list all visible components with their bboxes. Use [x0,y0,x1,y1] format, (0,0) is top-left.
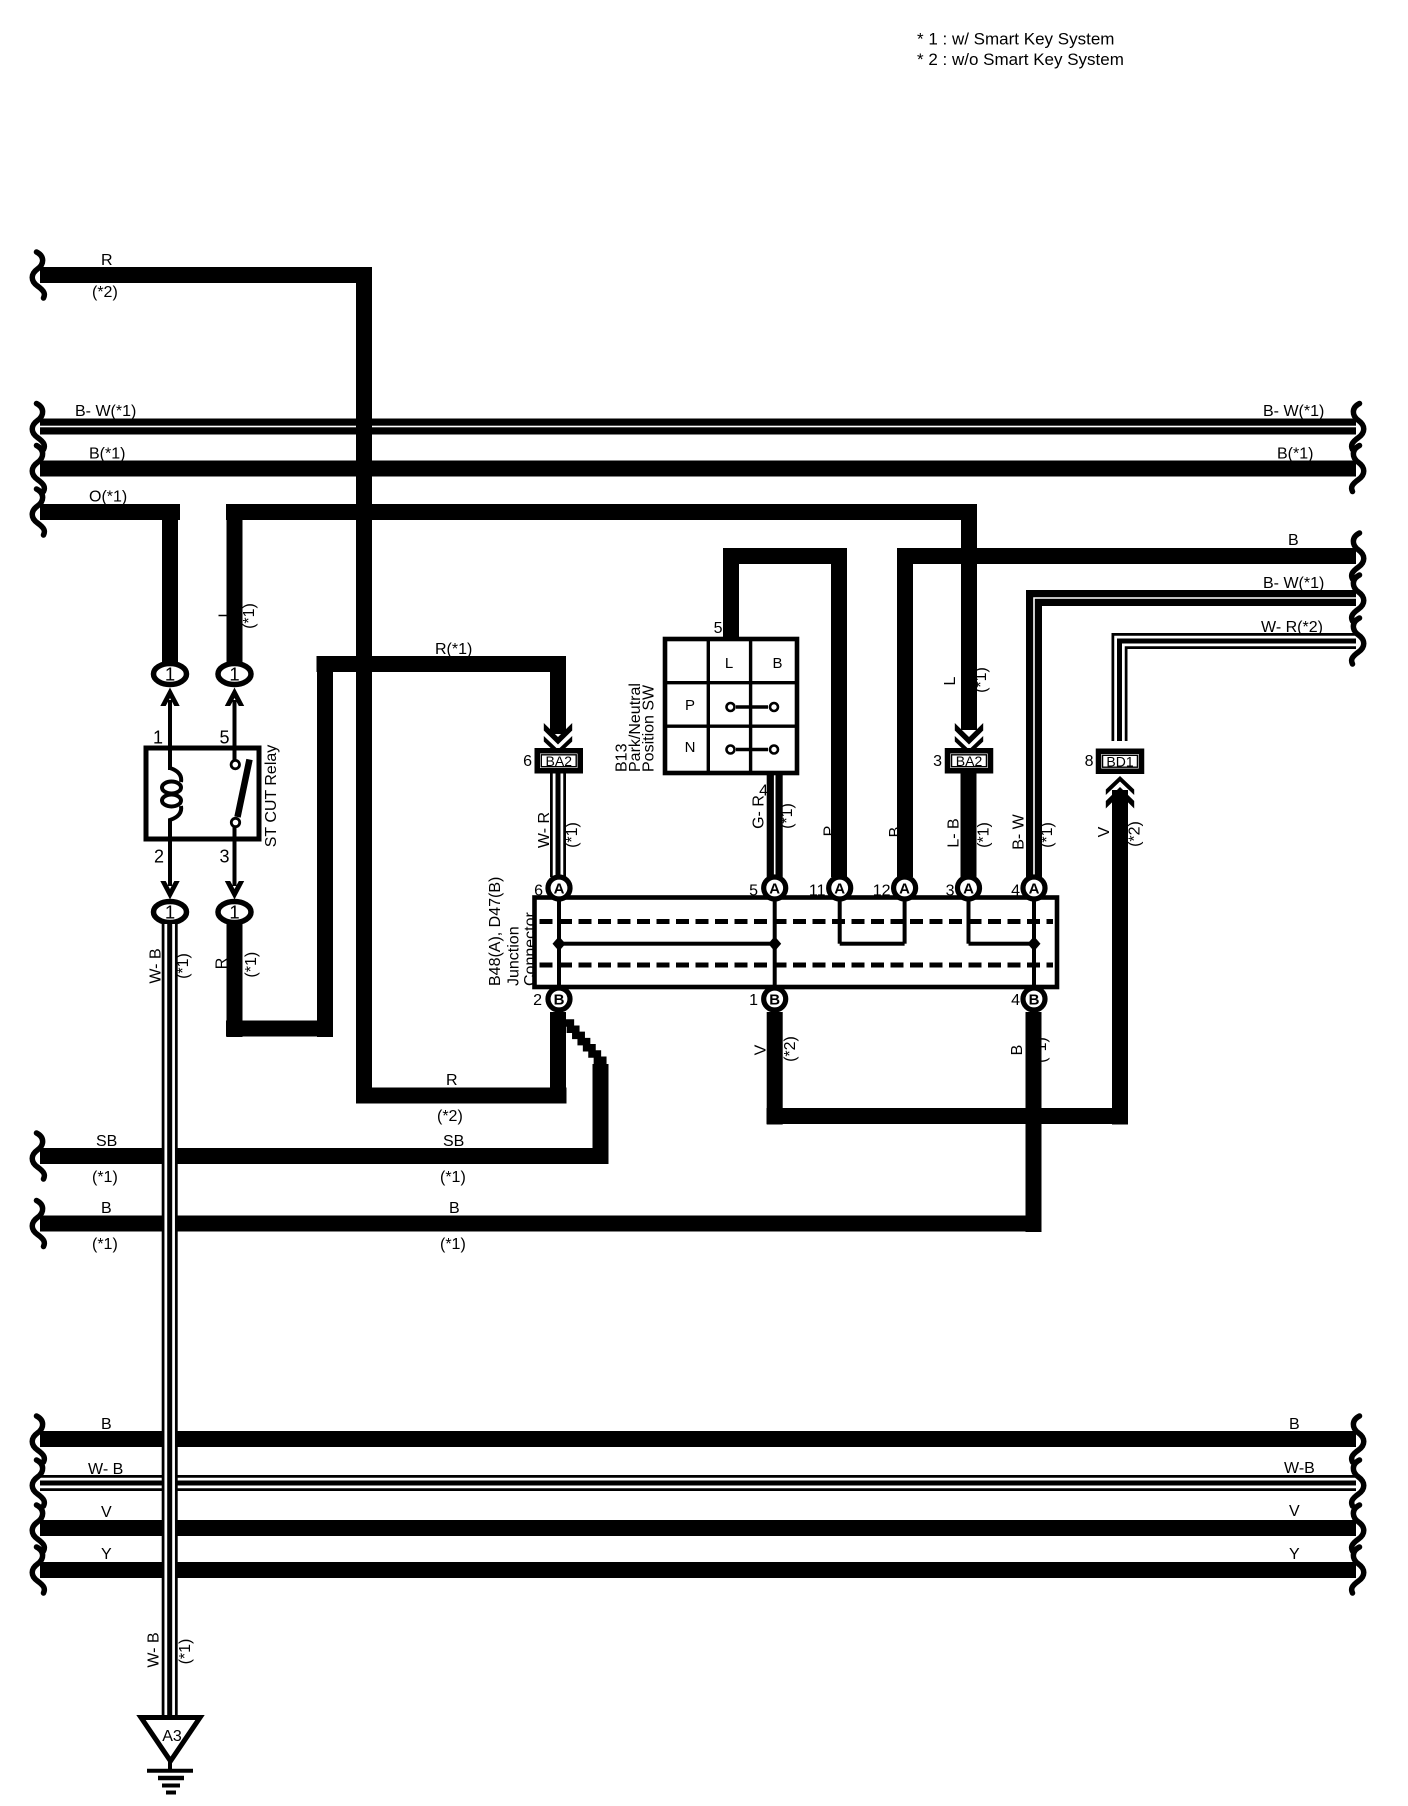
harness break right y1439 [1352,1416,1364,1462]
wire V(*2) riser to connector BD1 pin 8 [1112,790,1128,1125]
label B(*1) right [1277,446,1313,463]
Park/Neutral Position SW B13 body [665,639,797,773]
label W-B bottom right [1284,1460,1315,1477]
Park/Neutral SW contact pair row P [727,703,779,711]
harness break right y1483 [1352,1460,1364,1506]
svg-text:A: A [834,881,845,898]
svg-text:V: V [101,1504,112,1521]
rotated label (*1) at x1046 [1033,1037,1050,1063]
rotated label W- B at x158.5 [146,1632,163,1667]
wire B vertical drop to junction pin 12A [897,548,913,877]
harness break right y426.5 [1352,404,1364,450]
svg-text:B: B [101,1200,112,1217]
label R left [101,252,113,269]
terminal oval 1 above relay pin 1 [154,664,187,685]
svg-text:B(*1): B(*1) [1277,446,1313,463]
svg-text:(*2): (*2) [437,1108,463,1125]
svg-text:L: L [217,608,234,617]
terminal oval 1 above relay pin 5 [218,664,251,685]
svg-text:(*2): (*2) [782,1036,799,1062]
svg-text:(*1): (*1) [1033,1037,1050,1063]
wire L(*1) drop to connector BA2 pin 3 [961,504,977,730]
rotated label (*1) at x577 [564,822,581,848]
svg-text:B48(A), D47(B): B48(A), D47(B) [487,877,504,986]
junction internal link pin 5A to 1B [773,899,777,986]
wire R(*2) from top-left break, horizontal run [40,267,372,283]
svg-text:(*1): (*1) [1039,822,1056,848]
junction internal link pin 6A to 2B [557,899,561,986]
svg-text:(*1): (*1) [175,953,192,979]
connector arrow into BA2 pin 6 [544,723,572,755]
label B mid [449,1200,460,1217]
harness break right y598 [1352,575,1364,621]
SW name B13 Park/Neutral Position SW [614,683,658,772]
label SB left [96,1133,117,1150]
svg-text:L: L [725,655,733,672]
svg-text:BD1: BD1 [1106,753,1133,769]
svg-text:A: A [769,881,780,898]
svg-text:3: 3 [933,753,942,770]
rotated label (*1) at x986 [973,667,990,693]
relay switch blade [238,760,250,818]
svg-text:W- R(*2): W- R(*2) [1261,619,1323,636]
svg-text:1: 1 [229,902,239,923]
Park/Neutral SW grid lines [665,639,797,773]
wire O(*1) horizontal from left break [40,504,180,520]
svg-text:B- W(*1): B- W(*1) [1263,575,1324,592]
harness break left y512 [32,489,44,535]
svg-text:B- W(*1): B- W(*1) [1263,403,1324,420]
label V bottom right [1289,1503,1300,1520]
svg-text:12: 12 [873,883,891,900]
svg-text:P: P [685,697,695,714]
wire B horizontal from right break [897,548,1356,564]
label B- W(*1) left [75,403,136,420]
junction internal bus 11A-12A [840,942,905,946]
label O(*1) left [89,489,127,506]
svg-text:(*1): (*1) [241,603,258,629]
rotated label B at x1022 [1009,1045,1026,1056]
wire SB(*1) stepped option link from junction pin 2B [565,1023,605,1066]
svg-text:B- W: B- W [1011,813,1028,849]
svg-text:V: V [1096,826,1113,837]
label B bottom right [1289,1416,1300,1433]
terminal arrow into pin 5 [225,688,244,707]
relay pin 5 number [219,728,229,748]
svg-text:3: 3 [946,883,955,900]
svg-text:2: 2 [154,847,164,867]
label V bottom left [101,1504,112,1521]
svg-text:SB: SB [443,1133,464,1150]
svg-text:1: 1 [153,728,163,748]
harness break right y1528 [1352,1505,1364,1551]
relay pin 1 lead [168,700,172,770]
rotated label (*1) at x255.8 [243,952,260,978]
svg-text:R: R [101,252,113,269]
junction pin circle A at x1034 [1023,877,1045,899]
junction pin numbers A row [534,883,1020,900]
junction node dot at 4A/4B column [1028,936,1041,951]
svg-text:(*1): (*1) [440,1236,466,1253]
relay pin 2 lead [168,837,172,886]
wire SB(*1) horizontal from left break [40,1148,609,1164]
svg-text:1: 1 [229,664,239,685]
svg-text:B: B [554,992,565,1009]
svg-text:SB: SB [96,1133,117,1150]
svg-text:B- W(*1): B- W(*1) [75,403,136,420]
wire L(*1) horizontal run [226,504,977,520]
BD1 pin 8 number [1085,753,1094,770]
svg-text:5: 5 [714,620,723,637]
svg-text:W- R: W- R [536,812,553,848]
svg-text:B: B [1289,1416,1300,1433]
harness break left y1483 [32,1460,44,1506]
label B bottom left [101,1416,112,1433]
harness break left y1528 [32,1505,44,1551]
junction internal link pin 3A down [967,899,971,944]
relay ST CUT Relay body [146,748,259,839]
svg-text:8: 8 [1085,753,1094,770]
svg-text:Y: Y [101,1546,112,1563]
wire B(*1) from junction pin 4B down [1026,1012,1042,1232]
junction pin circle B at x774.7 [764,988,786,1010]
svg-text:W- B: W- B [88,1461,123,1478]
wire V(*2) horizontal run [767,1108,1129,1124]
legend note *1/*2 [917,30,1124,70]
svg-text:3: 3 [219,847,229,867]
svg-text:ST CUT Relay: ST CUT Relay [263,745,280,848]
connector arrow into BD1 pin 8 [1106,776,1134,809]
junction pin circle A at x774.7 [764,877,786,899]
junction node dot at 2B column [553,936,566,951]
junction pin circle A at x904.6 [894,877,916,899]
svg-text:11: 11 [809,883,826,900]
rotated label (*1) at x254 [241,603,258,629]
svg-text:1: 1 [165,902,175,923]
harness break left y1570 [32,1547,44,1593]
junction internal bus 3A-4A [969,942,1035,946]
svg-text:R: R [446,1072,458,1089]
label (*2) mid [437,1108,463,1125]
rotated label W- B at x160.5 [148,948,165,983]
label (*1) under B left [92,1236,118,1253]
svg-text:4: 4 [1011,992,1020,1009]
rotated label (*1) at x988.5 [976,822,993,848]
junction name B48(A),D47(B) Junction Connector [487,877,539,986]
wire L(*1) drop to ST CUT relay pin 5 terminal [227,504,243,665]
connector arrow into BA2 pin 3 [955,723,983,755]
wire W-B horizontal bottom [40,1475,1356,1491]
junction pin circle A at x559 [548,877,570,899]
svg-text:B: B [769,992,780,1009]
rotated label W- R at x549 [536,812,553,848]
wire R(*1) from relay pin 3 terminal down [227,924,243,1037]
junction internal link pin 12A down [903,899,907,944]
BA2 pin 3 number [933,753,942,770]
rotated label (*2) at x1139.5 [1127,821,1144,847]
junction pin circle B at x1034 [1023,988,1045,1010]
terminal oval 1 below relay pin 2 [154,902,187,923]
wire P riser from Park/Neutral SW pin 5 [723,548,739,644]
wire R(*1) bottom jog [226,1021,333,1037]
label Y bottom left [101,1546,112,1563]
rotated label L at x229.5 [217,608,234,617]
wire G-R from Park/Neutral SW pin 4 to junction pin 5A [767,768,783,877]
svg-text:P: P [822,826,839,837]
rotated label R at x226.5 [214,958,231,970]
svg-text:B: B [772,655,782,672]
rotated label B at x900 [887,827,904,838]
svg-text:B: B [1288,532,1299,549]
svg-text:* 1 : w/ Smart Key System: * 1 : w/ Smart Key System [917,30,1114,49]
relay switch contact pin 3 [231,818,239,826]
label Y bottom right [1289,1546,1300,1563]
rotated label G- R at x763.5 [751,795,768,829]
relay pin 3 number [219,847,229,867]
svg-text:A: A [899,881,910,898]
svg-text:B: B [101,1416,112,1433]
relay pin 5 lead [233,700,237,761]
relay pin 2 number [154,847,164,867]
wire W-R(*2) from right break to BD1 pin 8 [1120,641,1357,741]
wire L-B(*1) from BA2 pin 3 to junction pin 3A [961,770,977,877]
junction connector B48(A),D47(B) body [535,898,1058,988]
wire R(*2) bottom horizontal run to junction pin 2B [356,1088,567,1104]
harness break left y426.5 [32,404,44,450]
svg-text:A: A [1029,881,1040,898]
svg-text:B(*1): B(*1) [89,446,125,463]
relay name ST CUT Relay [263,745,280,848]
label (*1) under SB left [92,1169,118,1186]
BA2 pin 6 number [523,753,532,770]
svg-text:V: V [1289,1503,1300,1520]
rotated label P at x834.5 [822,826,839,837]
svg-text:1: 1 [165,664,175,685]
label SB mid [443,1133,464,1150]
svg-text:A3: A3 [162,1728,182,1745]
wire V bottom horizontal [40,1520,1356,1536]
wire R(*1) drop into connector BA2 pin 6 [550,656,566,734]
svg-text:(*1): (*1) [177,1639,194,1665]
label R mid [446,1072,458,1089]
rotated label L at x955 [942,676,959,685]
harness break right y556 [1352,533,1364,579]
junction internal link pin 11A down [838,899,842,944]
harness break left y275 [32,252,44,298]
harness break left y1223.5 [32,1201,44,1247]
svg-text:(*1): (*1) [92,1169,118,1186]
rotated label (*1) at x792 [779,803,796,829]
svg-text:B: B [887,827,904,838]
label (*1) mid under B [440,1236,466,1253]
wire B(*1) top horizontal [40,461,1356,477]
svg-text:(*1): (*1) [976,822,993,848]
svg-text:R: R [214,958,231,970]
relay switch contact pin 5 [231,760,239,768]
Park/Neutral SW cell letters [685,655,783,756]
svg-text:G- R: G- R [751,795,768,829]
svg-text:(*2): (*2) [1127,821,1144,847]
rotated label (*2) at x795 [782,1036,799,1062]
junction pin circle A at x968.5 [958,877,980,899]
ground A3 triangle [141,1718,200,1762]
svg-text:O(*1): O(*1) [89,489,127,506]
wire R(*2) vertical drop at x364 [356,267,372,1104]
label B right [1288,532,1299,549]
connector BA2 pin 6 box [535,748,584,774]
svg-text:6: 6 [534,883,543,900]
junction internal bus 6A/2B to 5A/1B [559,942,775,946]
wire B bottom horizontal [40,1431,1356,1447]
wire B-W(*1) top horizontal [40,419,1356,435]
wire R(*1) riser [317,656,333,1037]
svg-text:W- B: W- B [146,1632,163,1667]
svg-text:(*1): (*1) [564,822,581,848]
svg-text:5: 5 [219,728,229,748]
rotated label L- B at x958.5 [946,818,963,847]
junction pin circle A at x839.7 [829,877,851,899]
wire P horizontal jog [723,548,847,564]
label (*1) mid under SB [440,1169,466,1186]
ground A3 stem and hatching [147,1758,193,1793]
harness break left y1439 [32,1416,44,1462]
wire O(*1) vertical drop to ST CUT relay pin 1 terminal [162,504,178,665]
rotated label V at x765.5 [753,1044,770,1055]
svg-text:1: 1 [749,992,758,1009]
connector BD1 pin 8 box [1096,749,1145,775]
junction pin numbers B row [533,992,1020,1009]
wire V(*2) from junction pin 1B down [767,1012,783,1125]
harness break left y468.5 [32,446,44,492]
svg-text:L: L [942,676,959,685]
svg-text:* 2 : w/o Smart Key System: * 2 : w/o Smart Key System [917,50,1124,69]
harness break right y641 [1352,618,1364,664]
terminal arrow into pin 2 oval [160,881,179,900]
wire Y bottom horizontal [40,1562,1356,1578]
terminal arrow into pin 1 [160,688,179,707]
label B left [101,1200,112,1217]
wire R(*1) horizontal run [317,656,567,672]
svg-text:(*1): (*1) [973,667,990,693]
svg-text:B: B [1029,992,1040,1009]
svg-text:(*1): (*1) [243,952,260,978]
svg-text:2: 2 [533,992,542,1009]
wire R(*2) vertical overlay at B-W crossing [356,418,372,436]
relay pin 3 lead [233,827,237,886]
svg-text:A: A [554,881,565,898]
harness break right y468.5 [1352,446,1364,492]
svg-text:4: 4 [1011,883,1020,900]
wire R(*2) riser into junction pin 2B [550,1012,566,1104]
svg-text:L- B: L- B [946,818,963,847]
svg-text:B: B [449,1200,460,1217]
svg-text:V: V [753,1044,770,1055]
wire B-W(*1) from right break to junction pin 4A [1034,598,1356,877]
wire W-B(*1) from relay pin 2 to ground A3 [162,924,178,1720]
svg-text:N: N [685,739,696,756]
svg-text:Y: Y [1289,1546,1300,1563]
label W- R(*2) right [1261,619,1323,636]
rotated label (*1) at x1052 [1039,822,1056,848]
svg-text:R(*1): R(*1) [435,641,472,658]
svg-text:5: 5 [749,883,758,900]
svg-text:(*2): (*2) [92,284,118,301]
label B(*1) left [89,446,125,463]
svg-text:BA2: BA2 [546,753,573,769]
rotated label V at x1109 [1096,826,1113,837]
svg-text:W-B: W-B [1284,1460,1315,1477]
SW pin 4 number [759,783,768,800]
svg-text:6: 6 [523,753,532,770]
terminal arrow into pin 3 oval [225,881,244,900]
svg-text:Junction: Junction [506,926,523,986]
relay coil between pins 1 and 2 [162,750,181,837]
svg-text:Position SW: Position SW [641,684,658,772]
svg-text:(*1): (*1) [440,1169,466,1186]
svg-text:B: B [1009,1045,1026,1056]
junction node dot at 1B column [768,936,781,951]
svg-text:A: A [963,881,974,898]
svg-text:BA2: BA2 [956,753,983,769]
harness break left y1156 [32,1133,44,1179]
rotated label (*1) at x190 [177,1639,194,1665]
relay pin 1 number [153,728,163,748]
junction connector internal dashed bus lines [540,922,1054,966]
Park/Neutral SW contact pair row N [727,746,779,754]
wire SB(*1) riser to stepped link [593,1064,609,1160]
rotated label (*1) at x188 [175,953,192,979]
harness break right y1570 [1352,1547,1364,1593]
svg-text:(*1): (*1) [92,1236,118,1253]
label R(*1) mid [435,641,472,658]
wire W-R(*1) from BA2 pin 6 to junction pin 6A [550,774,566,878]
label W- B bottom left [88,1461,123,1478]
label (*2) left [92,284,118,301]
SW pin 5 number [714,620,723,637]
wire B(*1) horizontal run to left break [40,1216,1042,1232]
label B- W(*1) right mid [1263,575,1324,592]
svg-text:W- B: W- B [148,948,165,983]
label B- W(*1) right top [1263,403,1324,420]
terminal oval 1 below relay pin 3 [218,902,251,923]
connector BA2 pin 3 box [945,748,994,774]
svg-text:(*1): (*1) [779,803,796,829]
junction pin circle B at x559 [548,988,570,1010]
rotated label B- W at x1023.5 [1011,813,1028,849]
svg-text:Connector: Connector [522,912,539,986]
wire P drop to junction pin 11A [831,548,847,877]
junction internal link pin 4A to 4B [1032,899,1036,986]
